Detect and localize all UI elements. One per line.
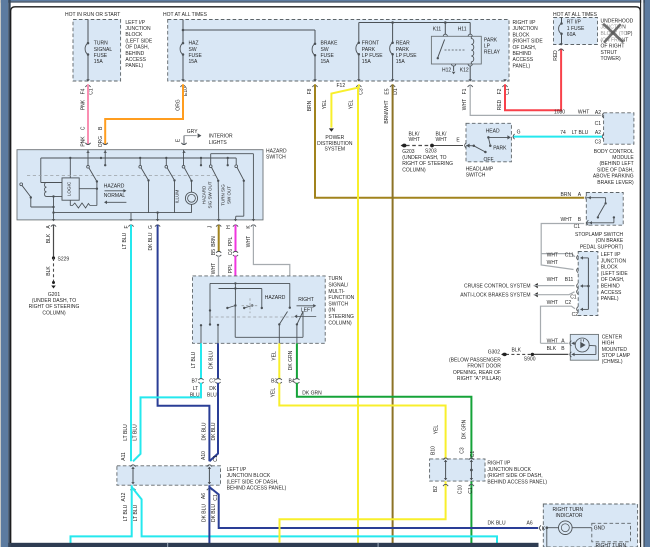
svg-text:SWITCH: SWITCH: [466, 173, 486, 179]
svg-text:A11: A11: [121, 452, 127, 461]
svg-text:HAZARD: HAZARD: [266, 148, 287, 154]
svg-text:BODY CONTROL: BODY CONTROL: [594, 149, 634, 155]
svg-text:SWITCH: SWITCH: [266, 155, 286, 161]
svg-text:DK BLU: DK BLU: [211, 422, 217, 440]
svg-text:B4: B4: [288, 378, 294, 384]
svg-text:PEDAL SUPPORT): PEDAL SUPPORT): [580, 244, 624, 250]
svg-text:ACCESS: ACCESS: [125, 57, 146, 63]
svg-text:RELAY: RELAY: [484, 50, 501, 56]
svg-text:F1: F1: [462, 88, 468, 94]
svg-text:LT BLU: LT BLU: [122, 232, 128, 249]
svg-text:BLK: BLK: [512, 348, 522, 354]
svg-text:OF RIGHT: OF RIGHT: [601, 44, 625, 50]
svg-text:DK BLU: DK BLU: [208, 351, 214, 369]
svg-text:G201: G201: [48, 292, 60, 298]
svg-text:TOWER): TOWER): [601, 56, 622, 62]
svg-text:C7: C7: [209, 378, 216, 384]
svg-text:LEFT I/P: LEFT I/P: [601, 252, 621, 258]
svg-text:SW OUT: SW OUT: [227, 186, 232, 204]
svg-text:HAZARD: HAZARD: [202, 185, 207, 204]
svg-text:BLOCK: BLOCK: [125, 32, 143, 38]
svg-text:C1: C1: [470, 451, 476, 458]
svg-text:C3: C3: [460, 447, 466, 454]
svg-text:WHT: WHT: [436, 137, 447, 143]
svg-text:C1: C1: [595, 121, 602, 127]
svg-text:FRONT: FRONT: [362, 41, 379, 47]
svg-text:JUNCTION BLOCK: JUNCTION BLOCK: [487, 467, 531, 473]
svg-text:RIGHT OF STEERING: RIGHT OF STEERING: [29, 304, 80, 310]
svg-text:RIGHT: RIGHT: [298, 297, 314, 303]
svg-text:LT BLU: LT BLU: [132, 424, 138, 441]
svg-text:FUSE: FUSE: [94, 53, 108, 59]
svg-text:OF DASH,: OF DASH,: [125, 45, 149, 51]
svg-text:F2: F2: [497, 88, 503, 94]
svg-text:JUNCTION: JUNCTION: [513, 26, 539, 32]
svg-text:RIGHT TURN: RIGHT TURN: [596, 543, 627, 547]
svg-text:BLK: BLK: [46, 233, 52, 243]
svg-text:BRAKE LEVER): BRAKE LEVER): [597, 180, 634, 186]
svg-text:(BEHIND LEFT: (BEHIND LEFT: [600, 161, 634, 167]
svg-text:C2: C2: [572, 312, 579, 318]
svg-text:PANEL): PANEL): [513, 63, 531, 69]
svg-text:LT BLU: LT BLU: [123, 424, 129, 441]
svg-text:WHT: WHT: [561, 217, 572, 223]
svg-text:C1: C1: [89, 88, 95, 95]
svg-text:RIGHT TURN: RIGHT TURN: [553, 507, 584, 513]
svg-text:1 FUSE: 1 FUSE: [567, 26, 585, 32]
svg-text:WHT: WHT: [547, 300, 558, 306]
svg-text:15A: 15A: [94, 59, 104, 65]
svg-text:FUNCTION: FUNCTION: [328, 295, 354, 301]
svg-text:(RIGHT SIDE OF DASH,: (RIGHT SIDE OF DASH,: [487, 473, 542, 479]
svg-text:OF DASH,: OF DASH,: [513, 45, 537, 51]
svg-text:PARK: PARK: [493, 145, 507, 151]
svg-text:PARK: PARK: [484, 37, 498, 43]
svg-text:OPENING, REAR OF: OPENING, REAR OF: [453, 370, 501, 376]
svg-text:STOP LAMP: STOP LAMP: [602, 353, 631, 359]
svg-text:DK BLU: DK BLU: [488, 520, 506, 526]
svg-text:HAZARD: HAZARD: [265, 295, 286, 301]
svg-text:HEADLAMP: HEADLAMP: [466, 166, 494, 172]
svg-text:HIGH: HIGH: [602, 341, 615, 347]
svg-text:B11: B11: [565, 277, 574, 283]
svg-text:RT I/P: RT I/P: [567, 20, 582, 26]
svg-text:HAZARD: HAZARD: [104, 183, 125, 189]
svg-text:A2: A2: [595, 110, 601, 116]
svg-text:E5: E5: [385, 88, 391, 94]
svg-text:H11: H11: [458, 27, 467, 33]
svg-text:WHT: WHT: [246, 236, 252, 247]
svg-text:60A: 60A: [567, 32, 577, 38]
svg-text:(LEFT SIDE OF DASH,: (LEFT SIDE OF DASH,: [227, 479, 279, 485]
svg-text:PANEL): PANEL): [601, 296, 619, 302]
svg-text:NORMAL: NORMAL: [104, 193, 126, 199]
svg-text:C6: C6: [228, 249, 234, 256]
svg-text:F4: F4: [81, 88, 87, 94]
svg-text:HEAD: HEAD: [486, 129, 500, 135]
svg-text:JUNCTION BLOCK: JUNCTION BLOCK: [227, 473, 271, 479]
svg-text:G: G: [148, 225, 154, 229]
svg-text:YEL: YEL: [322, 100, 328, 110]
svg-text:K12: K12: [460, 67, 469, 73]
svg-text:15A: 15A: [189, 59, 199, 65]
svg-text:F: F: [124, 225, 130, 228]
svg-text:BLOCK: BLOCK: [601, 265, 619, 271]
svg-text:RIGHT OF STEERING: RIGHT OF STEERING: [402, 161, 453, 167]
svg-text:OFF: OFF: [484, 157, 494, 163]
svg-text:STEERING: STEERING: [328, 314, 354, 320]
svg-text:SYSTEM: SYSTEM: [325, 146, 346, 152]
svg-text:PPL: PPL: [228, 237, 234, 247]
svg-text:DK GRN: DK GRN: [462, 419, 468, 439]
svg-text:SIDE OF DASH,: SIDE OF DASH,: [597, 167, 634, 173]
svg-text:SW: SW: [189, 47, 197, 53]
svg-text:(CHMSL): (CHMSL): [602, 359, 623, 365]
svg-text:HAZ: HAZ: [189, 41, 199, 47]
svg-text:YEL: YEL: [348, 100, 354, 110]
svg-text:CENTER: CENTER: [602, 334, 623, 340]
svg-text:B10: B10: [431, 446, 437, 455]
svg-text:SIG SW OUT: SIG SW OUT: [208, 181, 213, 208]
svg-text:FRONT DOOR: FRONT DOOR: [467, 364, 501, 370]
svg-text:(LEFT SIDE: (LEFT SIDE: [125, 38, 153, 44]
svg-text:LT BLU: LT BLU: [572, 130, 589, 136]
svg-text:DK GRN: DK GRN: [302, 390, 322, 396]
svg-text:SIGNAL/: SIGNAL/: [328, 283, 348, 289]
svg-text:LT: LT: [193, 386, 198, 392]
svg-text:DK BLU: DK BLU: [201, 504, 207, 522]
svg-text:WHT: WHT: [462, 99, 468, 110]
svg-text:C: C: [81, 126, 87, 130]
svg-text:SW: SW: [321, 47, 329, 53]
svg-text:C10: C10: [458, 485, 464, 494]
svg-text:LP FUSE: LP FUSE: [396, 53, 417, 59]
svg-text:A2: A2: [595, 130, 601, 136]
svg-text:WHT: WHT: [547, 339, 558, 345]
svg-text:PNK: PNK: [81, 99, 87, 110]
svg-text:HOT AT ALL TIMES: HOT AT ALL TIMES: [163, 12, 208, 18]
svg-text:ORG: ORG: [98, 136, 104, 148]
svg-text:15A: 15A: [321, 59, 331, 65]
svg-text:K11: K11: [433, 27, 442, 33]
svg-text:BRN: BRN: [561, 192, 572, 198]
svg-text:S900: S900: [524, 357, 536, 363]
svg-text:LT BLU: LT BLU: [123, 504, 129, 521]
svg-text:GND: GND: [594, 526, 606, 532]
svg-text:B7: B7: [191, 378, 197, 384]
svg-text:LEFT I/P: LEFT I/P: [125, 20, 145, 26]
svg-text:H12: H12: [442, 67, 451, 73]
svg-text:LT BLU: LT BLU: [133, 504, 139, 521]
svg-text:LP: LP: [484, 44, 491, 50]
svg-text:ACCESS: ACCESS: [601, 290, 622, 296]
svg-text:C2: C2: [565, 300, 572, 306]
svg-text:A10: A10: [201, 451, 207, 460]
svg-text:S203: S203: [425, 148, 437, 154]
svg-text:(ON BRAKE: (ON BRAKE: [596, 238, 624, 244]
svg-text:F12: F12: [337, 83, 346, 89]
svg-text:BLU: BLU: [207, 392, 217, 398]
svg-text:LOGIC: LOGIC: [67, 181, 72, 196]
svg-text:TURN: TURN: [328, 276, 342, 282]
svg-text:H: H: [226, 225, 232, 229]
svg-text:C11: C11: [565, 253, 574, 259]
svg-text:(UNDER DASH, TO: (UNDER DASH, TO: [402, 155, 446, 161]
svg-text:RIGHT I/P: RIGHT I/P: [487, 461, 511, 467]
svg-text:SWITCH: SWITCH: [328, 301, 348, 307]
svg-text:15A: 15A: [396, 59, 406, 65]
svg-text:B2: B2: [433, 486, 439, 492]
svg-text:WHT: WHT: [547, 260, 558, 266]
svg-text:ANTI-LOCK BRAKES SYSTEM: ANTI-LOCK BRAKES SYSTEM: [460, 293, 530, 299]
svg-text:S229: S229: [58, 256, 70, 262]
svg-text:GRY: GRY: [187, 129, 198, 135]
svg-text:MOUNTED: MOUNTED: [602, 347, 628, 353]
svg-text:C1: C1: [574, 224, 581, 230]
svg-text:BEHIND: BEHIND: [125, 51, 144, 57]
svg-text:FUSE: FUSE: [189, 53, 203, 59]
svg-text:PPL: PPL: [228, 264, 234, 274]
svg-text:PNK: PNK: [81, 136, 87, 147]
svg-text:15A: 15A: [362, 59, 372, 65]
svg-text:WHT: WHT: [211, 263, 217, 274]
svg-text:C3: C3: [358, 88, 364, 95]
svg-text:G302: G302: [488, 349, 500, 355]
svg-text:WHT: WHT: [547, 253, 558, 259]
svg-text:HOT IN RUN OR START: HOT IN RUN OR START: [65, 12, 120, 18]
svg-text:ABOVE PARKING: ABOVE PARKING: [593, 174, 634, 180]
svg-text:INTERIOR: INTERIOR: [209, 134, 233, 140]
svg-text:BRAKE: BRAKE: [321, 41, 339, 47]
svg-text:A6: A6: [201, 493, 207, 499]
svg-text:OF DASH,: OF DASH,: [601, 277, 625, 283]
svg-text:LEFT I/P: LEFT I/P: [227, 467, 247, 473]
svg-text:JUNCTION: JUNCTION: [601, 258, 627, 264]
svg-text:C1: C1: [505, 88, 511, 95]
svg-text:ORG: ORG: [175, 99, 181, 111]
svg-text:STRUT: STRUT: [601, 50, 618, 56]
svg-text:(IN: (IN: [328, 308, 335, 314]
svg-text:DK GRN: DK GRN: [288, 350, 294, 370]
svg-text:WHT: WHT: [547, 277, 558, 283]
svg-text:LT BLU: LT BLU: [191, 351, 197, 368]
svg-text:BLK: BLK: [46, 266, 52, 276]
svg-text:BEHIND: BEHIND: [601, 284, 620, 290]
svg-text:(BELOW PASSENGER: (BELOW PASSENGER: [449, 358, 501, 364]
svg-text:PARK: PARK: [362, 47, 376, 53]
svg-text:PARK: PARK: [396, 47, 410, 53]
svg-text:RED: RED: [497, 99, 503, 110]
svg-text:TURN: TURN: [94, 41, 108, 47]
svg-text:C1: C1: [468, 487, 474, 494]
svg-text:STOPLAMP SWITCH: STOPLAMP SWITCH: [575, 232, 624, 238]
svg-text:YEL: YEL: [271, 388, 277, 398]
svg-text:INDICATOR: INDICATOR: [556, 513, 583, 519]
svg-text:JUNCTION: JUNCTION: [125, 26, 151, 32]
svg-text:A12: A12: [121, 492, 127, 501]
svg-text:REAR: REAR: [396, 41, 410, 47]
svg-text:LP FUSE: LP FUSE: [362, 53, 383, 59]
svg-text:BLOCK: BLOCK: [513, 32, 531, 38]
svg-text:BEHIND: BEHIND: [513, 51, 532, 57]
svg-text:C3: C3: [595, 140, 602, 146]
svg-text:LEFT: LEFT: [301, 307, 313, 313]
svg-text:DK BLU: DK BLU: [148, 232, 154, 250]
svg-text:MULTI-: MULTI-: [328, 289, 345, 295]
svg-text:RED: RED: [553, 50, 559, 61]
svg-text:BRN: BRN: [307, 100, 313, 111]
svg-text:WHT: WHT: [578, 110, 589, 116]
svg-text:LIGHTS: LIGHTS: [209, 140, 228, 146]
svg-text:YEL: YEL: [434, 425, 440, 435]
svg-text:MODULE: MODULE: [612, 155, 634, 161]
svg-text:DK BLU: DK BLU: [211, 504, 217, 522]
svg-text:(LEFT SIDE: (LEFT SIDE: [601, 271, 629, 277]
svg-text:PANEL): PANEL): [125, 63, 143, 69]
svg-text:B3: B3: [271, 378, 277, 384]
svg-text:SIGNAL: SIGNAL: [94, 47, 113, 53]
svg-text:1080: 1080: [554, 110, 565, 116]
svg-text:A6: A6: [527, 520, 533, 526]
svg-text:BRN/WHT: BRN/WHT: [384, 100, 390, 123]
svg-text:YEL: YEL: [271, 351, 277, 361]
svg-text:(RIGHT SIDE: (RIGHT SIDE: [513, 39, 544, 45]
svg-text:G: G: [517, 129, 521, 135]
svg-text:BLK: BLK: [547, 346, 557, 352]
svg-text:ACCESS: ACCESS: [513, 57, 534, 63]
svg-text:FUSE: FUSE: [321, 53, 335, 59]
svg-text:BEHIND ACCESS PANEL): BEHIND ACCESS PANEL): [227, 486, 287, 492]
svg-text:F8: F8: [307, 88, 313, 94]
svg-text:B5: B5: [211, 249, 217, 255]
svg-text:RIGHT "A" PILLAR): RIGHT "A" PILLAR): [457, 376, 501, 382]
svg-text:DK: DK: [209, 386, 217, 392]
svg-text:RIGHT I/P: RIGHT I/P: [513, 20, 537, 26]
svg-text:D1: D1: [393, 88, 399, 95]
svg-text:74: 74: [560, 130, 566, 136]
svg-text:(UNDER DASH, TO: (UNDER DASH, TO: [32, 298, 76, 304]
svg-text:TURN SIG: TURN SIG: [221, 184, 226, 206]
svg-text:BRN: BRN: [211, 236, 217, 247]
svg-text:COLUMN): COLUMN): [328, 320, 352, 326]
svg-text:DK BLU: DK BLU: [201, 422, 207, 440]
svg-text:COLUMN): COLUMN): [42, 310, 66, 316]
svg-text:C1: C1: [213, 455, 219, 462]
svg-text:WHT: WHT: [409, 137, 420, 143]
svg-text:BEHIND ACCESS PANEL): BEHIND ACCESS PANEL): [487, 479, 547, 485]
svg-text:CRUISE CONTROL SYSTEM: CRUISE CONTROL SYSTEM: [464, 284, 531, 290]
svg-text:COLUMN): COLUMN): [402, 167, 426, 173]
svg-text:ILLUM: ILLUM: [175, 190, 180, 204]
